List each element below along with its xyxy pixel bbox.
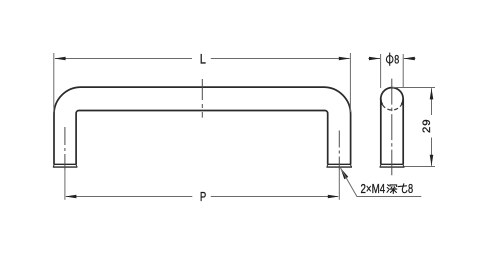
side view hidden bottom arc	[382, 105, 401, 110]
dim phi8 arrow left	[369, 57, 380, 61]
svg-text:P: P	[200, 191, 207, 205]
left leg end face	[53, 164, 78, 167]
centerline right leg	[338, 131, 340, 171]
dim L extension left	[53, 53, 55, 112]
side view rod end face	[380, 164, 405, 167]
svg-text:8: 8	[408, 183, 413, 197]
dim 29 arrow top	[430, 88, 434, 99]
centerline side rod	[391, 79, 393, 176]
right leg end face	[327, 164, 353, 167]
dim phi8 arrow lines	[368, 58, 415, 60]
dim 29 line	[431, 88, 433, 166]
handle outer contour	[54, 87, 351, 165]
svg-text:8: 8	[394, 53, 399, 67]
svg-text:29: 29	[421, 119, 433, 133]
centerline top rail	[201, 79, 203, 118]
dim phi8 extension lines	[381, 54, 404, 88]
centerline left leg	[64, 127, 66, 170]
svg-text:L: L	[200, 50, 206, 67]
dim P arrow left	[65, 195, 76, 199]
dim 29 extension bottom	[405, 166, 436, 168]
dim phi8 arrow right	[403, 57, 414, 61]
dim L line	[55, 58, 350, 60]
leader arrow at right leg tapped hole	[340, 168, 348, 180]
leader line	[340, 168, 421, 197]
svg-text:2×M4: 2×M4	[361, 183, 386, 196]
label kanji fukasa (depth)	[387, 185, 397, 194]
side view rod solid top arc	[381, 88, 403, 105]
dim L arrow left	[54, 57, 65, 61]
dim 29 extension top	[393, 87, 436, 89]
label kana sa	[398, 184, 407, 193]
label phi symbol	[386, 53, 393, 66]
dim 29 arrow bottom	[430, 155, 434, 166]
dim P line	[66, 196, 338, 198]
handle inner contour	[76, 111, 328, 165]
dim L extension right	[349, 53, 351, 112]
dim P arrow right	[328, 195, 339, 199]
side view rod sides	[381, 99, 403, 165]
dim L arrow right	[339, 57, 350, 61]
